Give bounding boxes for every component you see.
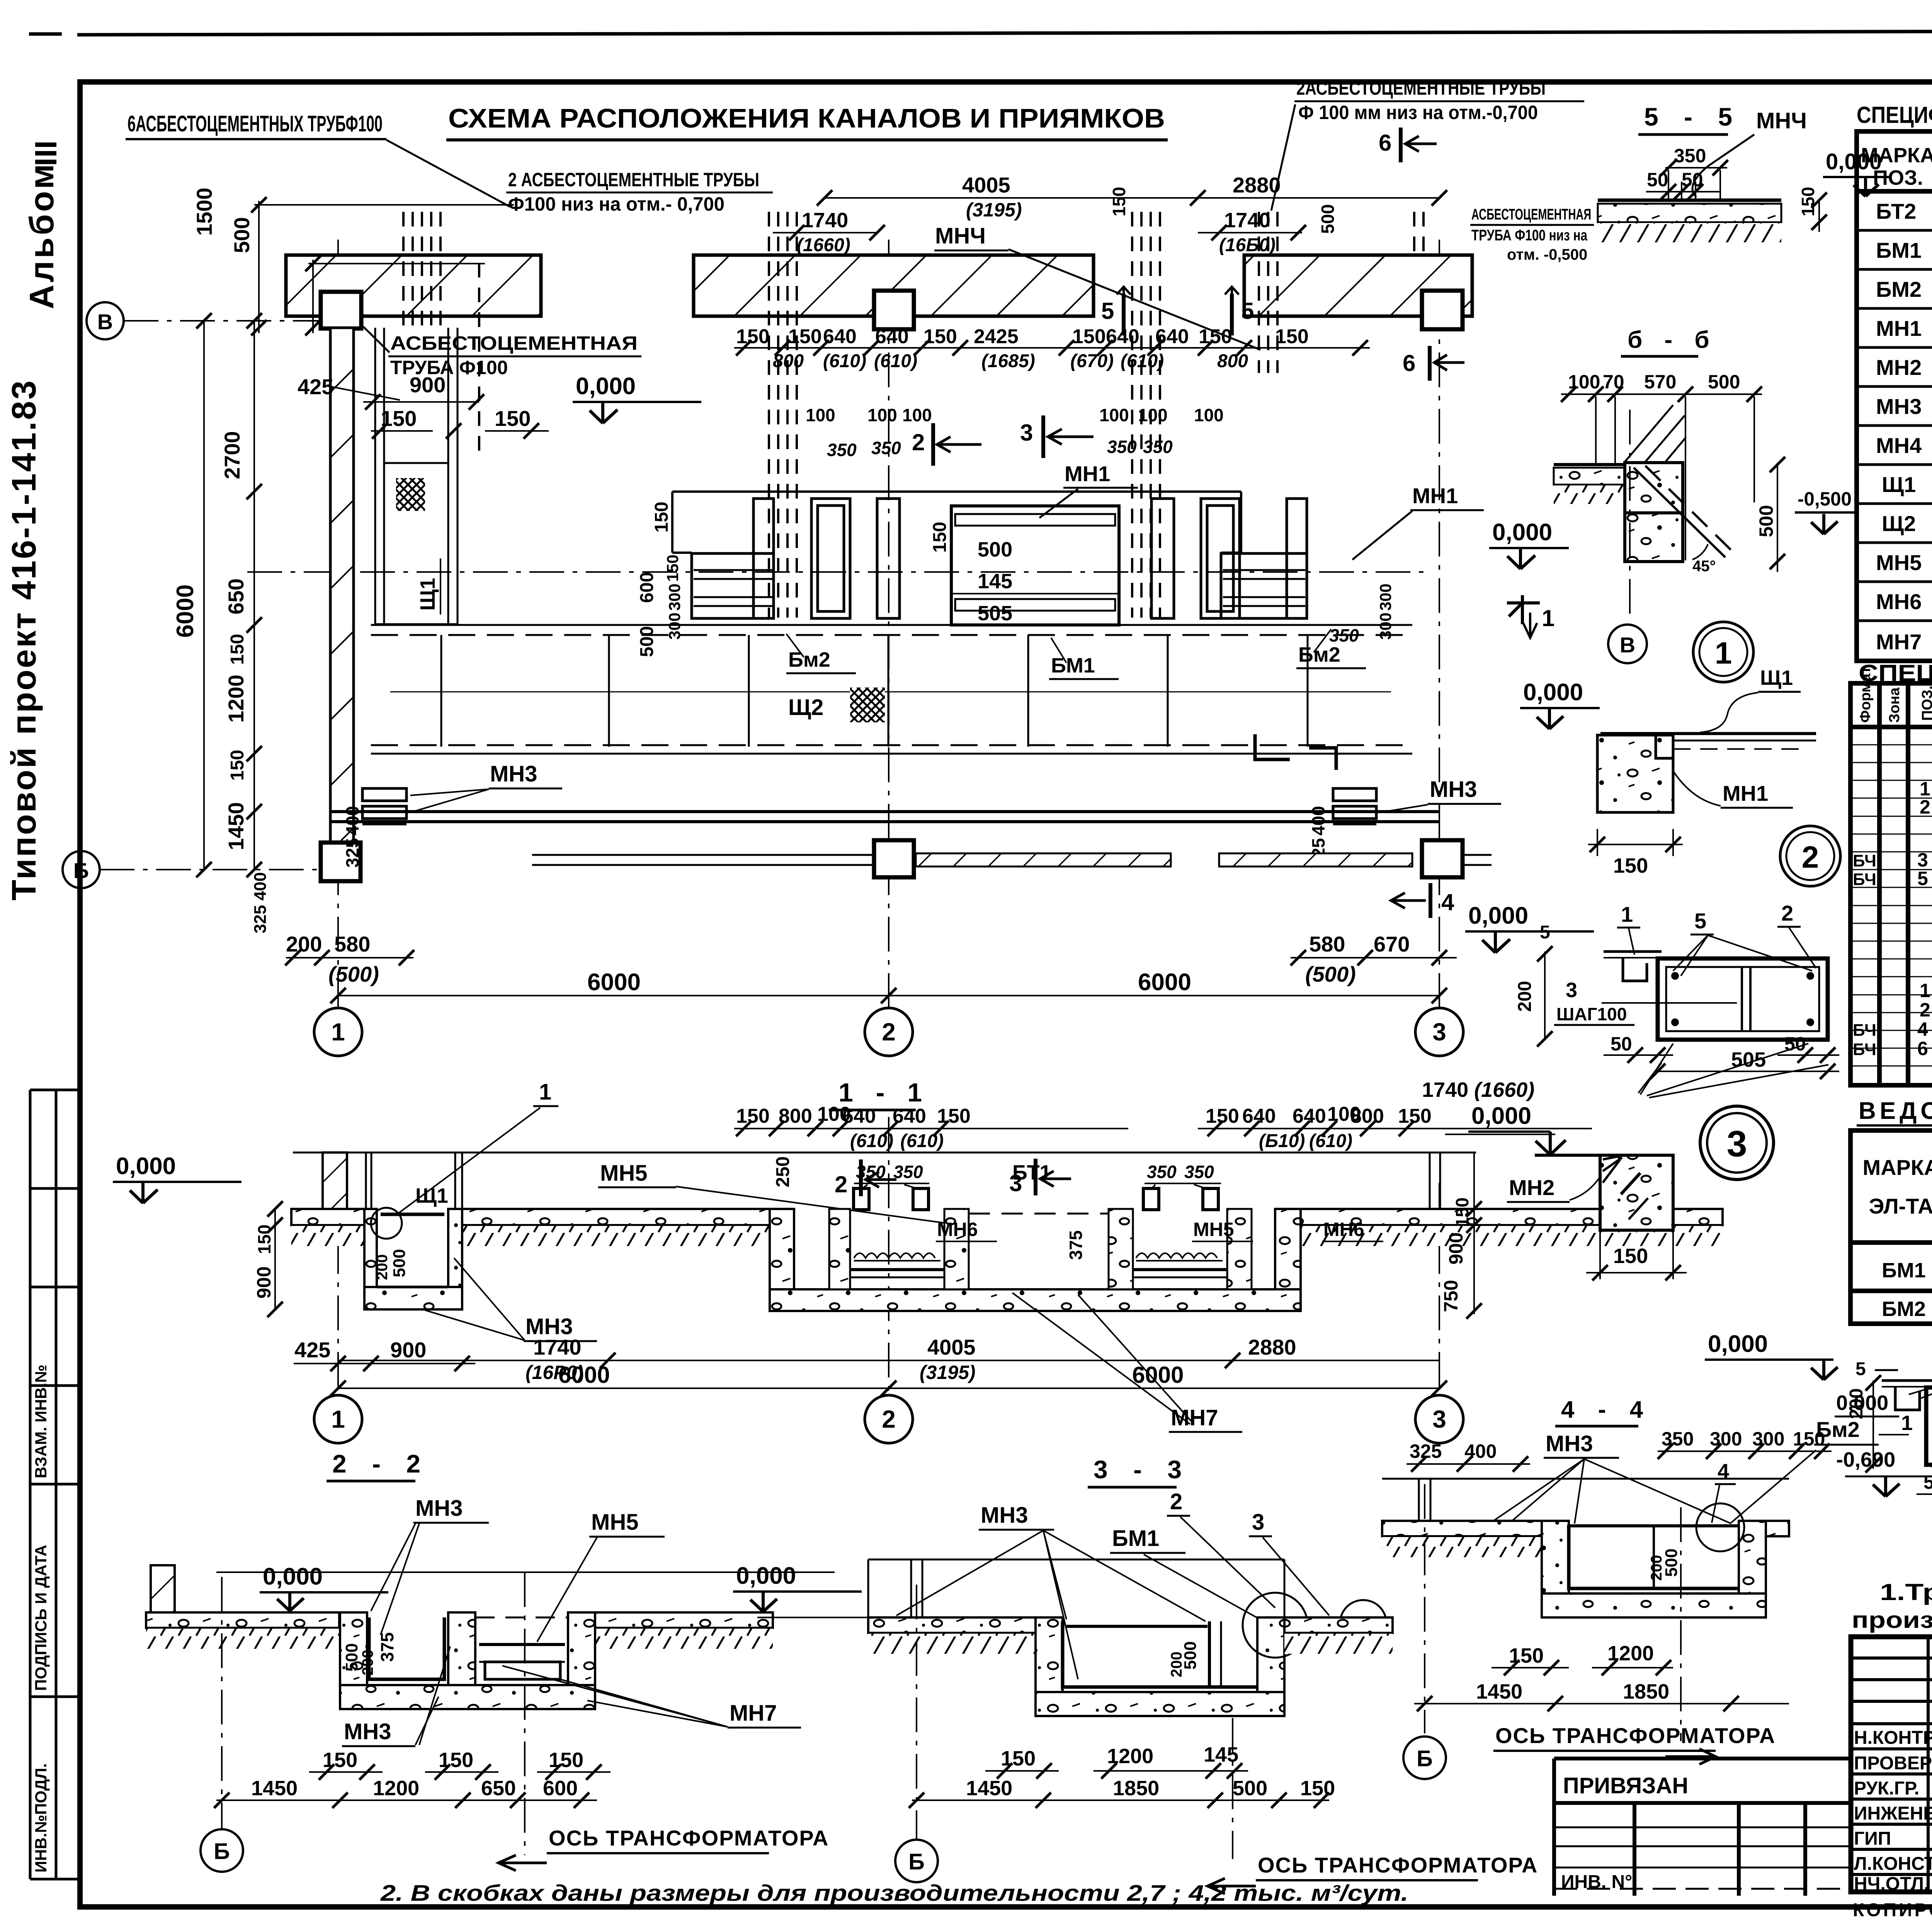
svg-text:200: 200 — [1515, 981, 1535, 1012]
svg-text:Щ1: Щ1 — [1760, 666, 1793, 689]
top-left vertical dims 1500/500 — [254, 201, 514, 333]
svg-text:МН2: МН2 — [1876, 355, 1922, 380]
svg-text:Л.КОНСТР: Л.КОНСТР — [1854, 1854, 1932, 1874]
svg-text:325: 325 — [342, 838, 362, 868]
svg-text:50: 50 — [1784, 1033, 1806, 1055]
svg-text:ПОДПИСЬ И ДАТА: ПОДПИСЬ И ДАТА — [32, 1545, 50, 1691]
svg-text:МНЧ: МНЧ — [935, 223, 986, 249]
svg-text:МН3: МН3 — [981, 1503, 1028, 1528]
svg-text:500: 500 — [978, 538, 1012, 561]
svg-text:(610): (610) — [823, 351, 866, 371]
svg-text:-0,690: -0,690 — [1836, 1448, 1895, 1471]
svg-text:2880: 2880 — [1233, 173, 1281, 197]
grid circles — [314, 1008, 362, 1056]
svg-text:2425: 2425 — [974, 325, 1019, 348]
svg-text:150: 150 — [736, 1105, 770, 1127]
svg-text:150: 150 — [1206, 1105, 1239, 1127]
svg-text:150: 150 — [651, 502, 672, 533]
svg-text:6: 6 — [1403, 350, 1415, 376]
svg-text:Б: Б — [1417, 1746, 1433, 1771]
svg-text:БТ1: БТ1 — [1012, 1161, 1051, 1184]
svg-text:4: 4 — [1718, 1460, 1729, 1483]
svg-text:0,000: 0,000 — [263, 1563, 323, 1590]
svg-text:2880: 2880 — [1248, 1335, 1296, 1359]
svg-text:МН7: МН7 — [730, 1701, 777, 1726]
svg-text:1200: 1200 — [373, 1777, 419, 1800]
svg-text:1: 1 — [539, 1079, 551, 1105]
svg-text:МН1: МН1 — [1876, 316, 1922, 340]
svg-text:Н.КОНТР.: Н.КОНТР. — [1854, 1728, 1932, 1748]
svg-text:СХЕМА РАСПОЛОЖЕНИЯ КАНАЛОВ: СХЕМА РАСПОЛОЖЕНИЯ КАНАЛОВ И ПРИЯМКОВ — [448, 103, 1165, 133]
svg-text:МН1: МН1 — [1065, 461, 1110, 486]
svg-text:ТРУБА Ф100 низ на: ТРУБА Ф100 низ на — [1471, 227, 1588, 244]
svg-text:БЧ: БЧ — [1853, 1040, 1876, 1059]
svg-text:В: В — [97, 310, 113, 334]
svg-text:400: 400 — [342, 806, 362, 836]
svg-text:ГИП: ГИП — [1854, 1828, 1891, 1849]
svg-text:150: 150 — [788, 325, 822, 348]
side rotated dims — [637, 502, 1395, 657]
svg-text:ИНВ. N°: ИНВ. N° — [1561, 1872, 1632, 1892]
svg-text:1: 1 — [1542, 605, 1554, 631]
svg-text:2: 2 — [882, 1018, 896, 1046]
svg-text:150: 150 — [1613, 1244, 1648, 1268]
svg-text:5: 5 — [1101, 298, 1114, 324]
svg-text:0,000: 0,000 — [1836, 1391, 1888, 1415]
svg-text:БМ1: БМ1 — [1882, 1259, 1926, 1282]
BT1 posts — [854, 1188, 1218, 1210]
svg-text:БМ2: БМ2 — [1876, 277, 1922, 301]
asbestos pipe bundles (dashed) — [403, 212, 1423, 618]
svg-text:МН1: МН1 — [1412, 483, 1458, 508]
flanking channel rects — [692, 499, 1307, 618]
svg-text:2: 2 — [1802, 840, 1819, 874]
svg-text:2 - 2: 2 - 2 — [332, 1449, 430, 1478]
svg-text:200: 200 — [1648, 1555, 1665, 1581]
svg-text:ВЕДОМОСТЬ РАСХОДА СТАЛИ НА: ВЕДОМОСТЬ РАСХОДА СТАЛИ НА ОДИН ЭЛЕМЕНТ … — [1859, 1098, 1932, 1124]
svg-text:1450: 1450 — [1476, 1680, 1522, 1703]
svg-text:ПОЗ.: ПОЗ. — [1919, 686, 1932, 721]
central big slab — [951, 506, 1119, 625]
svg-text:(610): (610) — [874, 351, 917, 371]
svg-text:500: 500 — [342, 1643, 361, 1672]
beam body — [1926, 1387, 1932, 1465]
svg-text:600: 600 — [637, 572, 657, 603]
svg-text:580: 580 — [1309, 932, 1345, 956]
svg-text:2: 2 — [882, 1405, 896, 1433]
svg-text:6000: 6000 — [587, 969, 641, 996]
svg-text:2: 2 — [1781, 901, 1793, 925]
svg-text:Б: Б — [214, 1839, 230, 1864]
svg-text:200: 200 — [286, 932, 322, 956]
svg-text:ОСЬ ТРАНСФОРМАТОРА: ОСЬ ТРАНСФОРМАТОРА — [1258, 1853, 1538, 1877]
svg-text:Типовой проект 416-1-141.83: Типовой проект 416-1-141.83 — [5, 379, 43, 901]
svg-text:6000: 6000 — [172, 584, 199, 638]
svg-text:500: 500 — [1708, 371, 1740, 393]
svg-text:350: 350 — [893, 1162, 923, 1182]
svg-text:Альбом: Альбом — [22, 162, 61, 309]
svg-text:100: 100 — [1099, 405, 1129, 425]
svg-text:(16Б0): (16Б0) — [1219, 235, 1276, 255]
svg-text:МН3: МН3 — [344, 1719, 391, 1744]
svg-text:БЧ: БЧ — [1853, 851, 1876, 870]
svg-text:0,000: 0,000 — [1708, 1331, 1768, 1357]
dash-dot axes — [338, 1117, 1439, 1394]
left vertical dim stack — [204, 321, 254, 870]
svg-text:200: 200 — [1168, 1651, 1185, 1677]
svg-text:325: 325 — [251, 905, 270, 933]
svg-text:350: 350 — [1662, 1428, 1694, 1450]
svg-text:1850: 1850 — [1113, 1777, 1159, 1800]
level line — [293, 1152, 1476, 1154]
svg-text:БТ2: БТ2 — [1876, 199, 1916, 223]
bottom wall — [330, 810, 1439, 813]
svg-text:150: 150 — [495, 406, 531, 431]
svg-text:150: 150 — [1109, 187, 1129, 216]
svg-text:350: 350 — [856, 1162, 886, 1182]
svg-text:Б: Б — [908, 1849, 925, 1874]
leaders — [896, 1517, 1329, 1679]
svg-text:БЧ: БЧ — [1853, 870, 1876, 889]
svg-text:0,000: 0,000 — [576, 373, 636, 400]
svg-text:Ф 100 мм низ на отм.-0,700: Ф 100 мм низ на отм.-0,700 — [1298, 102, 1538, 123]
svg-text:2700: 2700 — [220, 431, 244, 479]
svg-text:ОСЬ ТРАНСФОРМАТОРА: ОСЬ ТРАНСФОРМАТОРА — [549, 1826, 829, 1850]
svg-text:НЧ.ОТЛ.: НЧ.ОТЛ. — [1854, 1874, 1929, 1894]
ground slabs with concrete speckle — [291, 1209, 364, 1225]
floor strips — [146, 1612, 339, 1628]
svg-text:640: 640 — [875, 325, 909, 348]
svg-text:2АСБЕСТОЦЕМЕНТНЫЕ ТРУБЫ: 2АСБЕСТОЦЕМЕНТНЫЕ ТРУБЫ — [1296, 77, 1546, 99]
svg-text:1450: 1450 — [224, 802, 248, 850]
rail row — [532, 854, 874, 856]
svg-text:150: 150 — [1613, 854, 1648, 877]
svg-text:150: 150 — [227, 634, 248, 665]
circles — [314, 1395, 362, 1443]
columns — [321, 292, 361, 329]
svg-text:Бм2: Бм2 — [1298, 643, 1340, 666]
svg-text:(500): (500) — [328, 962, 379, 986]
svg-text:375: 375 — [377, 1632, 397, 1662]
svg-text:350: 350 — [1107, 437, 1137, 457]
svg-text:0,000: 0,000 — [1523, 679, 1583, 706]
svg-text:(1685): (1685) — [981, 351, 1035, 371]
dims — [1476, 1642, 1669, 1703]
svg-text:1850: 1850 — [1623, 1680, 1669, 1703]
svg-text:1 - 1: 1 - 1 — [838, 1078, 930, 1107]
svg-text:150: 150 — [736, 325, 770, 348]
svg-text:МН3: МН3 — [1430, 777, 1477, 802]
svg-text:150: 150 — [439, 1748, 473, 1772]
top plate lines — [1604, 950, 1662, 953]
ground hatch ticks — [291, 1226, 364, 1246]
dashed top line inside center — [969, 1213, 1109, 1215]
svg-text:900: 900 — [253, 1267, 275, 1299]
svg-text:МН4: МН4 — [1876, 433, 1922, 458]
svg-text:МН5: МН5 — [600, 1161, 647, 1186]
Sch1 pit — [364, 1209, 377, 1298]
svg-text:900: 900 — [390, 1338, 426, 1362]
svg-text:(670): (670) — [1070, 351, 1114, 371]
svg-text:Зона: Зона — [1886, 687, 1903, 723]
svg-text:АСБЕСТОЦЕМЕНТНАЯ: АСБЕСТОЦЕМЕНТНАЯ — [1471, 206, 1591, 223]
grid axes dash-dot — [100, 240, 1439, 1008]
MH3 stacks — [362, 788, 406, 824]
svg-text:1740 (1660): 1740 (1660) — [1422, 1078, 1534, 1101]
svg-text:350: 350 — [1184, 1162, 1214, 1182]
big detail circle 1 — [1693, 622, 1753, 682]
svg-text:1450: 1450 — [966, 1777, 1012, 1800]
svg-text:КОПИРОВАЛ ЯШУК: КОПИРОВАЛ ЯШУК — [1853, 1900, 1932, 1920]
svg-text:МН6: МН6 — [937, 1219, 978, 1240]
svg-text:2: 2 — [912, 429, 925, 455]
svg-text:150: 150 — [1001, 1747, 1036, 1770]
svg-text:350: 350 — [1143, 437, 1173, 457]
svg-text:2 АСБЕСТОЦЕМЕНТНЫЕ ТРУБЫ: 2 АСБЕСТОЦЕМЕНТНЫЕ ТРУБЫ — [508, 169, 759, 191]
svg-text:2: 2 — [1920, 999, 1930, 1021]
svg-text:6000: 6000 — [1138, 969, 1191, 996]
svg-text:1200: 1200 — [224, 674, 248, 723]
svg-text:МН5: МН5 — [1193, 1219, 1234, 1240]
svg-text:500: 500 — [1318, 204, 1338, 234]
svg-text:1: 1 — [1920, 980, 1930, 1001]
svg-text:ИНЖЕНЕР: ИНЖЕНЕР — [1854, 1803, 1932, 1824]
svg-text:800: 800 — [1217, 351, 1248, 371]
svg-text:640: 640 — [823, 325, 857, 348]
svg-text:1.Трансформаторная подстанция: 1.Трансформаторная подстанция разработан… — [1880, 1579, 1932, 1605]
svg-text:100: 100 — [1194, 405, 1224, 425]
svg-text:ШАГ100: ШАГ100 — [1556, 1004, 1627, 1024]
column — [1625, 463, 1683, 513]
svg-text:505: 505 — [1731, 1048, 1766, 1071]
svg-text:150: 150 — [1072, 325, 1106, 348]
svg-text:Щ2: Щ2 — [788, 695, 823, 720]
svg-text:Бм2: Бм2 — [1816, 1417, 1860, 1442]
svg-text:425: 425 — [294, 1338, 330, 1362]
svg-text:БМ1: БМ1 — [1051, 654, 1095, 677]
svg-text:150: 150 — [930, 522, 950, 553]
dims — [966, 1743, 1335, 1800]
svg-text:800: 800 — [779, 1105, 812, 1127]
svg-text:0,000: 0,000 — [736, 1563, 796, 1589]
svg-text:III: III — [29, 140, 63, 166]
svg-text:Щ1: Щ1 — [1882, 472, 1916, 497]
svg-text:АСБЕСТОЦЕМЕНТНАЯ: АСБЕСТОЦЕМЕНТНАЯ — [390, 332, 638, 354]
svg-text:6АСБЕСТОЦЕМЕНТНЫХ ТРУБФ100: 6АСБЕСТОЦЕМЕНТНЫХ ТРУБФ100 — [128, 111, 383, 136]
svg-text:1: 1 — [331, 1018, 345, 1046]
svg-text:БМ1: БМ1 — [1112, 1526, 1159, 1551]
svg-text:МН5: МН5 — [591, 1510, 638, 1535]
svg-text:425: 425 — [298, 375, 333, 399]
svg-text:МН6: МН6 — [1323, 1219, 1364, 1240]
svg-text:БМ1: БМ1 — [1876, 238, 1922, 262]
svg-text:6: 6 — [1917, 1038, 1928, 1059]
svg-text:БЧ: БЧ — [1853, 1021, 1876, 1040]
svg-text:ОСЬ ТРАНСФОРМАТОРА: ОСЬ ТРАНСФОРМАТОРА — [1495, 1723, 1776, 1748]
svg-text:100: 100 — [1138, 405, 1168, 425]
svg-text:МН6: МН6 — [1876, 589, 1922, 614]
svg-text:400: 400 — [1308, 806, 1328, 836]
svg-text:350: 350 — [827, 440, 857, 460]
svg-text:(1660): (1660) — [797, 235, 850, 255]
4 cut mark + 0,000 right — [1391, 893, 1426, 908]
svg-text:(610): (610) — [1121, 351, 1164, 371]
svg-text:МН1: МН1 — [1723, 781, 1768, 805]
svg-text:640: 640 — [1293, 1105, 1326, 1127]
svg-text:МН3: МН3 — [526, 1314, 573, 1339]
axis circles B, V — [87, 302, 124, 339]
svg-text:б - б: б - б — [1628, 327, 1717, 353]
svg-text:6: 6 — [1379, 130, 1391, 156]
pit — [340, 1612, 367, 1708]
svg-text:670: 670 — [1374, 932, 1410, 956]
svg-text:570: 570 — [1644, 371, 1676, 393]
svg-text:ПРИВЯЗАН: ПРИВЯЗАН — [1563, 1773, 1688, 1798]
svg-text:Ф100 низ на отм.- 0,700: Ф100 низ на отм.- 0,700 — [508, 193, 724, 215]
svg-text:150: 150 — [227, 750, 248, 781]
svg-text:(500): (500) — [1305, 962, 1356, 986]
svg-text:145: 145 — [978, 570, 1012, 593]
svg-text:200: 200 — [359, 1650, 376, 1675]
top dim rows — [736, 1103, 1432, 1127]
svg-text:0,000: 0,000 — [1468, 902, 1528, 929]
svg-text:5: 5 — [1241, 298, 1254, 324]
svg-text:3: 3 — [1252, 1510, 1264, 1535]
svg-text:900: 900 — [1445, 1233, 1467, 1265]
top beams hatched — [286, 255, 541, 316]
svg-text:МН7: МН7 — [1876, 630, 1922, 654]
Sch1 channel left — [375, 328, 457, 624]
svg-text:Щ2: Щ2 — [1882, 511, 1916, 536]
svg-text:1: 1 — [1621, 902, 1633, 926]
svg-text:1: 1 — [331, 1405, 345, 1433]
svg-text:0,000: 0,000 — [1826, 149, 1882, 174]
above-ground walls — [323, 1153, 347, 1210]
svg-text:2: 2 — [1920, 796, 1930, 818]
dims — [251, 1748, 583, 1800]
svg-text:750: 750 — [1440, 1280, 1462, 1312]
svg-text:-0,500: -0,500 — [1798, 488, 1852, 510]
svg-text:300: 300 — [1376, 584, 1395, 611]
svg-text:3: 3 — [1432, 1018, 1446, 1046]
svg-text:МН3: МН3 — [1546, 1431, 1593, 1456]
svg-text:150: 150 — [1300, 1777, 1335, 1800]
svg-text:150: 150 — [1398, 1105, 1432, 1127]
svg-text:1450: 1450 — [251, 1777, 298, 1800]
svg-text:(3195): (3195) — [920, 1362, 976, 1383]
svg-text:650: 650 — [481, 1777, 516, 1800]
svg-text:(3195): (3195) — [966, 199, 1022, 221]
svg-text:150: 150 — [663, 555, 682, 582]
svg-text:производительности 7,0 тыс.: производительности 7,0 тыс. м³/сутки . — [1852, 1607, 1932, 1633]
svg-text:375: 375 — [1066, 1230, 1086, 1260]
central structure — [770, 1209, 794, 1289]
svg-text:4: 4 — [1917, 1018, 1928, 1040]
svg-text:500: 500 — [637, 626, 657, 657]
svg-text:3: 3 — [1020, 420, 1033, 446]
top plate + ground — [1382, 1478, 1789, 1480]
svg-text:4005: 4005 — [927, 1335, 976, 1359]
svg-text:150: 150 — [549, 1748, 583, 1772]
svg-text:900: 900 — [410, 373, 446, 397]
svg-text:БМ2: БМ2 — [1882, 1297, 1926, 1321]
svg-text:4: 4 — [1441, 889, 1454, 915]
svg-text:500: 500 — [1233, 1777, 1267, 1800]
upper dim rows of channels — [734, 347, 1370, 349]
svg-text:ЭЛ-ТА: ЭЛ-ТА — [1869, 1194, 1932, 1218]
svg-text:580: 580 — [334, 932, 370, 956]
svg-text:МАРКА: МАРКА — [1862, 1155, 1932, 1180]
svg-text:ПРОВЕРИЛ: ПРОВЕРИЛ — [1854, 1753, 1932, 1774]
central channels — [672, 492, 1241, 553]
svg-text:100: 100 — [867, 405, 897, 425]
beam body — [1658, 958, 1828, 1040]
left stamp boxes — [30, 1090, 80, 1879]
svg-text:640: 640 — [842, 1105, 876, 1127]
svg-text:3: 3 — [1566, 979, 1577, 1002]
svg-text:500: 500 — [230, 217, 254, 253]
svg-text:200: 200 — [374, 1254, 391, 1280]
svg-text:505: 505 — [978, 602, 1012, 625]
lower long lines + panels — [371, 625, 1412, 754]
left wall stub — [151, 1565, 175, 1612]
svg-text:1740: 1740 — [1224, 209, 1270, 232]
svg-text:2: 2 — [1170, 1489, 1182, 1514]
svg-text:50: 50 — [1923, 1471, 1932, 1493]
svg-text:МНЧ: МНЧ — [1756, 108, 1807, 133]
svg-text:5 - 5: 5 - 5 — [1644, 102, 1742, 131]
svg-text:45°: 45° — [1692, 558, 1716, 575]
left hatched wall — [330, 328, 354, 843]
svg-text:Щ1: Щ1 — [415, 1184, 448, 1207]
svg-text:150: 150 — [381, 406, 417, 431]
svg-text:3 - 3: 3 - 3 — [1094, 1455, 1191, 1484]
svg-text:100: 100 — [806, 405, 835, 425]
svg-text:Бм2: Бм2 — [788, 648, 830, 671]
svg-text:0,000: 0,000 — [1471, 1103, 1531, 1129]
svg-text:отм. -0,500: отм. -0,500 — [1507, 246, 1587, 263]
svg-text:640: 640 — [893, 1105, 926, 1127]
svg-text:600: 600 — [543, 1777, 578, 1800]
svg-text:МН3: МН3 — [415, 1496, 463, 1521]
svg-text:300: 300 — [1710, 1428, 1742, 1450]
svg-text:ВЗАМ. ИНВ.№: ВЗАМ. ИНВ.№ — [32, 1365, 50, 1478]
svg-text:5: 5 — [1855, 1359, 1866, 1379]
svg-text:ИНВ.№ПОДЛ.: ИНВ.№ПОДЛ. — [32, 1763, 50, 1873]
svg-text:100: 100 — [902, 405, 932, 425]
svg-text:МН2: МН2 — [1509, 1175, 1554, 1200]
bottom dims — [286, 932, 1410, 986]
svg-text:300: 300 — [1752, 1428, 1784, 1450]
top edge line — [29, 32, 62, 36]
svg-text:МН7: МН7 — [1171, 1405, 1218, 1430]
svg-text:350: 350 — [871, 438, 901, 458]
svg-text:2: 2 — [835, 1171, 847, 1197]
svg-text:6000: 6000 — [558, 1362, 610, 1388]
svg-text:МН5: МН5 — [1876, 550, 1922, 575]
svg-text:1740: 1740 — [802, 209, 848, 232]
svg-text:150: 150 — [923, 325, 957, 348]
plate — [1882, 1379, 1932, 1382]
svg-text:(610): (610) — [1309, 1131, 1352, 1151]
diagonal pipe — [1634, 468, 1725, 557]
svg-text:1: 1 — [1901, 1411, 1913, 1435]
svg-text:1500: 1500 — [192, 187, 216, 236]
svg-text:4005: 4005 — [962, 173, 1010, 197]
svg-text:300: 300 — [665, 584, 684, 611]
svg-text:500: 500 — [390, 1249, 409, 1277]
svg-text:2. В скобках даны размеры: 2. В скобках даны размеры для производит… — [380, 1881, 1408, 1906]
